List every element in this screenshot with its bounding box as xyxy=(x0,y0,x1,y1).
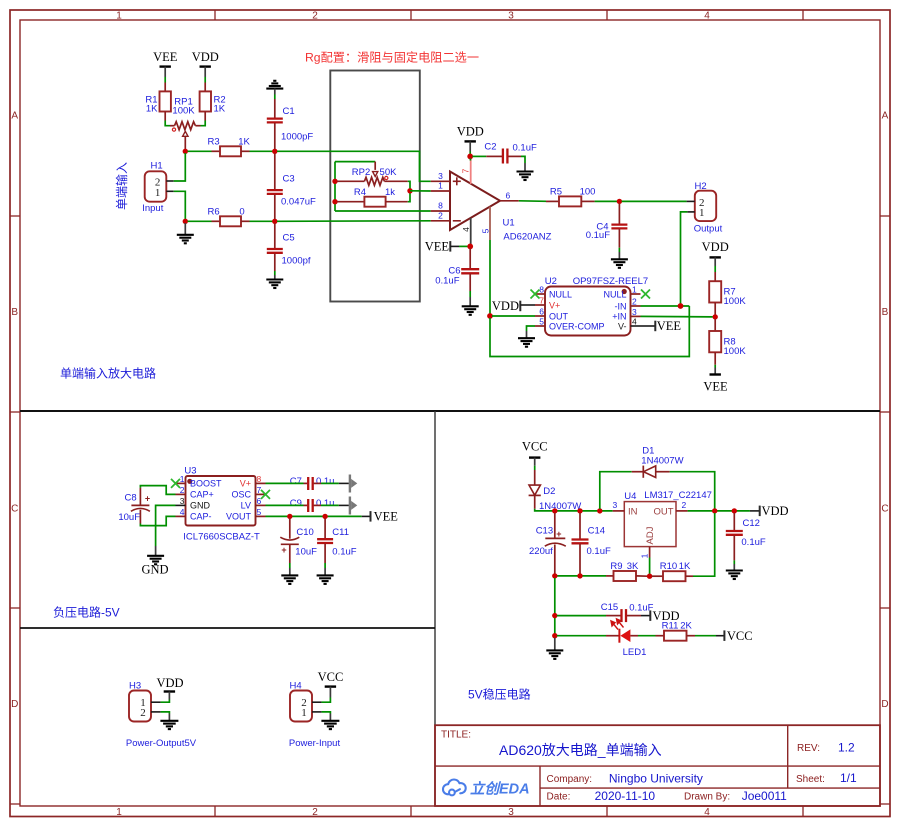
header H4 xyxy=(289,680,341,749)
wire U1 pin5 down to U2 OUT row xyxy=(489,240,491,314)
wire R5 to junction xyxy=(595,200,618,202)
svg-text:C15: C15 xyxy=(601,602,618,613)
svg-text:4: 4 xyxy=(632,317,637,327)
svg-text:+: + xyxy=(281,545,286,555)
svg-text:C13: C13 xyxy=(536,526,553,537)
net arrow flag (C9) xyxy=(349,497,358,515)
wire C13 column down xyxy=(554,578,556,634)
svg-text:VEE: VEE xyxy=(153,50,178,64)
capacitor C7 xyxy=(266,476,349,490)
svg-text:C: C xyxy=(11,504,18,515)
resistor R4 1k xyxy=(337,187,408,207)
svg-text:0.047uF: 0.047uF xyxy=(281,197,316,208)
svg-text:7: 7 xyxy=(461,168,471,173)
svg-text:2: 2 xyxy=(140,707,146,719)
svg-text:VEE: VEE xyxy=(657,319,682,333)
wire node B to R6 xyxy=(188,220,212,222)
junction R5/C4/H2 xyxy=(617,199,622,204)
RP2 loop left vertical wire xyxy=(334,162,336,211)
svg-text:+: + xyxy=(145,494,150,504)
wire H3 pin1 to VDD xyxy=(161,700,170,703)
junction RP2/R4 to pin1 xyxy=(407,188,412,193)
svg-text:AD620ANZ: AD620ANZ xyxy=(503,231,551,242)
net port VDD (U2 pin7) xyxy=(492,299,535,313)
svg-text:单端输入放大电路: 单端输入放大电路 xyxy=(60,366,156,381)
wire H4 pin1 to ground xyxy=(322,712,331,714)
svg-text:CAP-: CAP- xyxy=(190,512,212,522)
svg-text:C3: C3 xyxy=(283,174,295,185)
wire C8 top to U3 pin2 xyxy=(140,486,175,495)
junction R7/R8/+IN xyxy=(713,314,718,319)
svg-text:A: A xyxy=(882,111,889,122)
frame row labels right xyxy=(881,111,888,711)
section divider horizontal lower-left xyxy=(20,627,435,629)
svg-text:0.1uF: 0.1uF xyxy=(513,142,537,153)
svg-text:C11: C11 xyxy=(332,527,349,538)
net port VEE (U2 pin4) xyxy=(641,319,682,333)
net arrow flag (C7) xyxy=(349,475,358,493)
wire U3 pin3 to GND xyxy=(156,505,176,546)
svg-text:IN: IN xyxy=(628,507,638,518)
resistor R10 1K xyxy=(652,561,693,581)
svg-text:6: 6 xyxy=(506,190,511,200)
junction node D (R6/C3/C5) xyxy=(272,219,277,224)
svg-text:2: 2 xyxy=(438,211,443,221)
ground below H3 xyxy=(160,714,178,730)
junction LED row xyxy=(552,633,557,638)
wire R11 to VCC port xyxy=(695,635,716,637)
svg-text:-IN: -IN xyxy=(615,301,627,311)
svg-text:4: 4 xyxy=(704,11,710,22)
svg-text:B: B xyxy=(11,307,18,318)
svg-text:Sheet:: Sheet: xyxy=(796,774,825,785)
IC U3 ICL7660SCBAZ-T xyxy=(176,466,266,543)
svg-text:U1: U1 xyxy=(503,217,515,228)
wire -IN row xyxy=(641,305,690,307)
svg-text:C12: C12 xyxy=(743,518,760,529)
svg-text:VDD: VDD xyxy=(457,125,484,139)
svg-text:CAP+: CAP+ xyxy=(190,490,214,500)
svg-text:7: 7 xyxy=(257,485,262,495)
svg-text:LED1: LED1 xyxy=(623,647,647,658)
wire D1 to VDD rail xyxy=(670,472,715,509)
wire D2 to IN row xyxy=(535,509,613,511)
svg-text:Ningbo University: Ningbo University xyxy=(609,771,703,785)
RP2 loop bottom wire to opamp pin8 xyxy=(335,210,431,212)
svg-text:REV:: REV: xyxy=(797,743,820,754)
svg-text:+IN: +IN xyxy=(612,312,626,322)
svg-text:AD620放大电路_单端输入: AD620放大电路_单端输入 xyxy=(499,742,662,758)
svg-text:0.1uF: 0.1uF xyxy=(586,230,610,241)
svg-text:U4: U4 xyxy=(624,491,636,502)
svg-text:OP97FSZ-REEL7: OP97FSZ-REEL7 xyxy=(573,276,649,287)
wire R3 to node C xyxy=(250,150,273,152)
svg-text:B: B xyxy=(882,307,889,318)
junction -IN/H2 feedback xyxy=(678,303,684,309)
svg-text:R3: R3 xyxy=(208,137,220,148)
svg-text:OSC: OSC xyxy=(231,490,251,500)
net port VCC (R11) xyxy=(716,629,753,643)
ground above C1 (inverted) xyxy=(266,81,283,99)
no-connect X U3 pin1 xyxy=(171,479,180,488)
svg-text:VCC: VCC xyxy=(727,629,753,643)
svg-text:ADJ: ADJ xyxy=(645,526,656,544)
capacitor C3 xyxy=(267,154,316,220)
svg-text:D: D xyxy=(881,699,888,710)
svg-text:1: 1 xyxy=(639,553,649,558)
svg-text:LM317_C22147: LM317_C22147 xyxy=(644,490,712,501)
svg-text:V+: V+ xyxy=(240,479,251,489)
svg-text:VCC: VCC xyxy=(522,440,548,454)
svg-text:Output: Output xyxy=(694,223,723,234)
wire node D to opamp pin2 xyxy=(277,220,431,223)
svg-text:C14: C14 xyxy=(588,526,605,537)
svg-text:A: A xyxy=(11,111,18,122)
svg-text:GND: GND xyxy=(190,501,211,511)
net flag VDD (top-left) xyxy=(192,50,219,77)
svg-text:VEE: VEE xyxy=(374,510,399,524)
ground below H1 xyxy=(177,223,194,243)
svg-text:2: 2 xyxy=(180,485,185,495)
junction node B (H1/R6/gnd) xyxy=(183,219,188,224)
IC U4 LM317 xyxy=(613,490,712,558)
wire +IN row to divider xyxy=(641,315,713,318)
svg-text:Input: Input xyxy=(142,203,163,214)
resistor R6 xyxy=(208,207,250,227)
ground below H4 xyxy=(321,714,339,730)
resistor R9 3K xyxy=(606,561,647,581)
svg-text:2: 2 xyxy=(682,500,687,510)
junction VEE/pin4/C6 xyxy=(467,244,473,250)
resistor R11 2K xyxy=(656,621,696,641)
header H1 xyxy=(142,161,173,215)
Rg config box xyxy=(330,71,420,302)
title block frame xyxy=(435,725,880,806)
wire OUT junction down and along loop bottom xyxy=(490,306,689,357)
svg-text:100K: 100K xyxy=(724,296,747,307)
junction VOUT/C10 xyxy=(287,514,292,519)
ground below C11 xyxy=(317,568,334,584)
svg-text:BOOST: BOOST xyxy=(190,479,222,489)
capacitor C4 xyxy=(586,204,628,253)
svg-text:3: 3 xyxy=(613,500,618,510)
svg-text:100K: 100K xyxy=(724,346,747,357)
svg-text:3: 3 xyxy=(632,307,637,317)
ground below LED column xyxy=(546,638,563,659)
junction IN/C14 xyxy=(577,508,582,513)
frame column labels bottom xyxy=(116,807,710,818)
ground below C10 xyxy=(281,568,298,584)
svg-text:VDD: VDD xyxy=(762,504,789,518)
svg-text:5: 5 xyxy=(539,317,544,327)
wire H4 pin2 to VCC xyxy=(322,698,331,703)
resistor R8 xyxy=(709,319,746,365)
wire ADJ down to R9/R10 row xyxy=(649,558,651,577)
wire H2 pin1 down to -IN node xyxy=(681,212,688,304)
svg-text:RP2: RP2 xyxy=(352,167,370,178)
junction VOUT/C11 xyxy=(322,514,327,519)
ground below C6 xyxy=(462,297,479,315)
capacitor C2 xyxy=(472,142,537,164)
svg-text:0.1uF: 0.1uF xyxy=(587,546,611,557)
wire H3 pin2 to ground xyxy=(161,712,170,714)
net flag VDD (H3) xyxy=(156,676,183,700)
op-amp U1 AD620ANZ xyxy=(431,159,552,244)
junction IN/D1 branch xyxy=(597,508,602,513)
svg-text:1000pF: 1000pF xyxy=(281,132,313,143)
svg-text:6: 6 xyxy=(539,307,544,317)
svg-text:0.1u: 0.1u xyxy=(316,476,335,487)
svg-text:6: 6 xyxy=(257,496,262,506)
svg-text:0.1uF: 0.1uF xyxy=(435,275,459,286)
net port VEE (VOUT row) xyxy=(362,510,399,524)
IC U2 OP97FSZ-REEL7 xyxy=(535,276,648,336)
wire VOUT row xyxy=(266,515,362,517)
capacitor C12 xyxy=(726,513,766,564)
frame row labels left xyxy=(11,111,18,711)
svg-text:TITLE:: TITLE: xyxy=(441,730,471,741)
net flag VEE (below R8) xyxy=(703,365,728,394)
capacitor C10 xyxy=(280,519,317,569)
capacitor C1 xyxy=(267,99,314,149)
diode D1 1N4007W xyxy=(632,446,684,478)
no-connect X U2 pin1 xyxy=(641,290,650,299)
RP2 loop top wire to wiper xyxy=(335,161,375,163)
net port VDD (C15) xyxy=(650,609,679,623)
svg-text:C5: C5 xyxy=(283,232,295,243)
junction node A (RP1/H1/R3) xyxy=(183,149,188,154)
junction R4 left xyxy=(332,199,337,204)
svg-text:3: 3 xyxy=(180,496,185,506)
wire R6 to node D xyxy=(250,220,273,222)
wire OUT junction to U2 pin6 xyxy=(492,315,535,317)
wire R1 to RP1 left xyxy=(165,121,170,126)
svg-text:2020-11-10: 2020-11-10 xyxy=(595,789,656,803)
svg-text:1: 1 xyxy=(116,807,122,818)
svg-text:100K: 100K xyxy=(172,106,195,117)
svg-text:10uF: 10uF xyxy=(295,547,317,558)
svg-text:C: C xyxy=(881,504,888,515)
wire VDD to R2 xyxy=(204,77,206,91)
capacitor C6 xyxy=(435,249,479,298)
svg-text:5: 5 xyxy=(480,228,490,233)
svg-text:1: 1 xyxy=(301,707,307,719)
LED LED1 xyxy=(606,619,646,658)
wire VEE to R1 xyxy=(164,77,166,91)
ground below C12 xyxy=(726,564,743,579)
net flag VDD (above U1) xyxy=(457,125,484,155)
svg-text:7: 7 xyxy=(539,296,544,306)
ground right of C2 xyxy=(517,163,534,180)
diode D2 1N4007W xyxy=(529,470,582,512)
section divider vertical xyxy=(434,411,436,806)
resistor R5 xyxy=(546,186,595,206)
svg-text:Power-Input: Power-Input xyxy=(289,738,341,749)
svg-text:1: 1 xyxy=(116,11,122,22)
svg-text:4: 4 xyxy=(180,507,185,517)
svg-text:1: 1 xyxy=(180,474,185,484)
svg-text:1N4007W: 1N4007W xyxy=(641,456,683,467)
wire LED to R11 xyxy=(638,635,656,637)
junction node C (R3/C1/C3) xyxy=(272,149,277,154)
svg-text:4: 4 xyxy=(704,807,710,818)
capacitor C11 xyxy=(317,519,357,569)
svg-text:8: 8 xyxy=(257,474,262,484)
section divider horizontal main xyxy=(20,410,880,412)
net flag VCC (H4) xyxy=(318,670,344,698)
junction R9/R10/ADJ xyxy=(647,574,652,579)
capacitor C8 xyxy=(118,488,150,524)
frame column labels top xyxy=(116,11,710,22)
svg-text:0.1u: 0.1u xyxy=(316,498,335,509)
svg-text:1000pf: 1000pf xyxy=(282,256,311,267)
wire node A to R3 xyxy=(188,150,212,152)
svg-text:U2: U2 xyxy=(545,276,557,287)
svg-text:V+: V+ xyxy=(549,300,560,310)
svg-text:VDD: VDD xyxy=(702,240,729,254)
svg-text:1K: 1K xyxy=(214,104,226,115)
resistor R2 xyxy=(200,91,226,120)
svg-text:R6: R6 xyxy=(208,207,220,218)
svg-text:Company:: Company: xyxy=(547,774,593,785)
svg-text:4: 4 xyxy=(461,227,471,232)
svg-text:2: 2 xyxy=(312,807,318,818)
svg-text:单端输入: 单端输入 xyxy=(114,162,129,210)
wire junction to opamp pin1 xyxy=(410,190,431,192)
svg-text:5: 5 xyxy=(257,507,262,517)
svg-text:OUT: OUT xyxy=(549,311,569,321)
wire to LED xyxy=(557,635,606,637)
svg-text:0.1uF: 0.1uF xyxy=(332,547,356,558)
junction RP2 left xyxy=(332,179,337,184)
svg-text:1.2: 1.2 xyxy=(838,741,855,755)
capacitor C5 xyxy=(267,224,311,272)
header H2 xyxy=(687,181,723,235)
junction IN/C13 xyxy=(552,508,557,513)
resistor R7 xyxy=(709,272,746,315)
wire D1 branch up xyxy=(600,472,632,509)
svg-text:VOUT: VOUT xyxy=(226,512,252,522)
svg-text:Date:: Date: xyxy=(547,792,571,803)
ground below U2 pin5 xyxy=(518,326,535,347)
wire U1 pin6 to R5 xyxy=(519,200,546,203)
wire C8 bottom to U3 pin4 xyxy=(140,516,175,525)
svg-text:2: 2 xyxy=(632,297,637,307)
wire C13/C14 row to R9 xyxy=(555,575,606,577)
svg-text:C7: C7 xyxy=(290,476,302,487)
svg-text:1: 1 xyxy=(155,187,161,199)
svg-text:立创EDA: 立创EDA xyxy=(470,781,530,798)
net port VEE (left of U1 pin4) xyxy=(425,239,468,253)
svg-text:1K: 1K xyxy=(146,104,158,115)
junction OUT/VDD-rail xyxy=(712,508,717,513)
resistor R1 xyxy=(145,91,171,120)
wire OUT row to VDD port xyxy=(688,510,750,512)
potentiometer RP2 50K xyxy=(337,162,408,186)
svg-text:Rg配置：滑阻与固定电阻二选一: Rg配置：滑阻与固定电阻二选一 xyxy=(305,50,479,65)
potentiometer RP1 100K xyxy=(170,97,201,150)
svg-text:VDD: VDD xyxy=(192,50,219,64)
svg-text:8: 8 xyxy=(438,201,443,211)
wire junction to H2 pin2 xyxy=(622,200,687,202)
ground below C4 xyxy=(611,252,628,268)
svg-text:VDD: VDD xyxy=(492,299,519,313)
svg-text:GND: GND xyxy=(141,563,168,577)
svg-text:VEE: VEE xyxy=(703,380,728,394)
junction OUT/C12 xyxy=(732,508,737,513)
header H3 xyxy=(126,680,197,749)
svg-text:VDD: VDD xyxy=(156,676,183,690)
svg-text:D: D xyxy=(11,699,18,710)
junction VDD/C2/pin7 xyxy=(467,154,473,160)
svg-text:1: 1 xyxy=(438,181,443,191)
svg-text:5V稳压电路: 5V稳压电路 xyxy=(468,687,531,702)
svg-text:1: 1 xyxy=(632,285,637,295)
resistor R3 xyxy=(208,137,251,157)
svg-text:C9: C9 xyxy=(290,498,302,509)
svg-text:VCC: VCC xyxy=(318,670,344,684)
net flag GND xyxy=(141,546,168,577)
svg-text:ICL7660SCBAZ-T: ICL7660SCBAZ-T xyxy=(183,532,260,543)
svg-text:3: 3 xyxy=(508,11,514,22)
junction pin5/OUT xyxy=(487,313,493,319)
wire RP2/R4 right vertical xyxy=(408,181,410,201)
svg-text:C10: C10 xyxy=(296,527,313,538)
capacitor C15 xyxy=(557,602,654,622)
svg-text:VEE: VEE xyxy=(425,239,450,253)
wire node C into Rg box down to opamp pin3 xyxy=(277,151,431,181)
ground below C5 xyxy=(266,271,283,288)
capacitor C13 xyxy=(529,513,566,574)
wire junction to pin7 xyxy=(469,159,471,161)
no-connect X U3 pin7 xyxy=(261,490,270,499)
svg-text:8: 8 xyxy=(539,285,544,295)
svg-text:1/1: 1/1 xyxy=(840,771,857,785)
svg-text:3: 3 xyxy=(438,171,443,181)
svg-text:1: 1 xyxy=(699,207,705,219)
svg-text:Power-Output5V: Power-Output5V xyxy=(126,738,197,749)
svg-text:LV: LV xyxy=(241,501,251,511)
capacitor C14 xyxy=(572,513,611,574)
capacitor C9 xyxy=(266,498,349,512)
svg-text:3: 3 xyxy=(508,807,514,818)
svg-text:NULL: NULL xyxy=(603,289,626,299)
svg-text:NULL: NULL xyxy=(549,289,572,299)
wire R10 up to VDD rail xyxy=(693,513,715,576)
svg-text:C2: C2 xyxy=(484,142,496,153)
wire H1 pin1 down to node B xyxy=(174,191,186,219)
svg-text:Drawn By:: Drawn By: xyxy=(684,792,730,803)
junction C15 row xyxy=(552,613,557,618)
svg-text:OVER-COMP: OVER-COMP xyxy=(549,321,605,331)
svg-text:C8: C8 xyxy=(125,492,137,503)
svg-text:H1: H1 xyxy=(151,161,163,172)
junction C13 bottom xyxy=(552,573,557,578)
svg-text:10uF: 10uF xyxy=(118,512,140,523)
svg-text:V-: V- xyxy=(618,321,627,331)
net port VDD (regulator out) xyxy=(750,504,789,518)
svg-text:2: 2 xyxy=(312,11,318,22)
svg-text:D2: D2 xyxy=(543,486,555,497)
net flag VEE (top-left) xyxy=(153,50,178,77)
svg-text:+: + xyxy=(556,529,561,539)
wire H1 pin2 up to node A xyxy=(174,153,186,181)
junction C14 bottom xyxy=(577,573,582,578)
svg-text:Joe0011: Joe0011 xyxy=(742,789,787,803)
svg-text:0.1uF: 0.1uF xyxy=(741,537,765,548)
svg-text:C1: C1 xyxy=(283,106,295,117)
svg-text:OUT: OUT xyxy=(654,507,674,518)
